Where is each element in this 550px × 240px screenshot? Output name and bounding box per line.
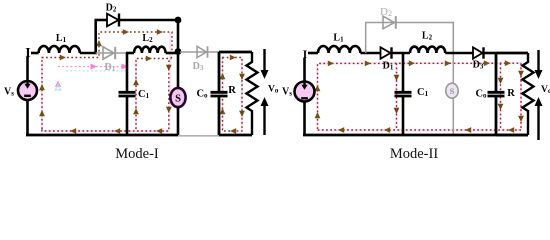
inductor L1 mode2 — [318, 46, 360, 53]
svg-text:Mode-I: Mode-I — [115, 146, 159, 162]
m2 arrow down c1 b — [394, 108, 400, 114]
wire S bottom lead — [177, 107, 180, 136]
pink arrow right 1 — [91, 64, 98, 70]
outloop arrow up a — [220, 73, 226, 79]
Vo arrow up — [261, 97, 269, 135]
wire D2 anode — [95, 19, 108, 22]
loop1 arrow left c — [70, 128, 76, 134]
pink ghost path horizontal — [58, 66, 128, 68]
current loop1 dashed Vs-L1-D2-S — [42, 32, 172, 131]
loop1 arrow right a — [60, 55, 66, 61]
wire Vs bottom lead mode2 — [303, 102, 306, 137]
mode2 dashed bottom return — [318, 129, 522, 131]
pink arrow up near Vs — [55, 81, 61, 88]
svg-text:Vo: Vo — [541, 85, 550, 95]
mode2 loop dashed main — [318, 63, 522, 129]
wire rail L1 to riser — [80, 52, 97, 55]
wire gray D2 branch mode2 — [366, 23, 454, 54]
pink halo under loop1 dashed — [42, 32, 171, 131]
m2 arrow right d — [445, 60, 451, 66]
m2 arrow left b — [465, 127, 471, 133]
wire node to L2 — [126, 52, 134, 55]
wire D1 to L2 mode2 — [392, 52, 411, 55]
wire bottom rail — [26, 134, 178, 137]
node dot top corner — [175, 17, 182, 24]
wire output box left lower mode2 — [495, 97, 498, 135]
mode2 dashed C1 branch down — [396, 63, 398, 130]
wire Vs bottom lead — [26, 100, 29, 136]
svg-text:S: S — [450, 86, 455, 96]
cyan artifact mark — [55, 85, 60, 91]
wire top rail left — [31, 52, 39, 55]
wire L2 to D3 mode2 — [445, 52, 473, 55]
switch S inactive mode2 — [446, 83, 458, 98]
source Vs — [18, 81, 37, 100]
svg-text:Vo: Vo — [268, 85, 279, 95]
loop1 arrow left b — [114, 128, 120, 134]
diode D2 inactive gray mode2 — [383, 16, 396, 29]
output loop dashed — [223, 58, 243, 132]
resistor R — [247, 52, 258, 135]
loop1 arrow down b — [166, 107, 172, 113]
mode2 dashed Co branch down — [500, 63, 502, 130]
m2 arrow left d — [338, 127, 344, 133]
m2 arrow right f — [505, 60, 511, 66]
pink halo under mode2 dashed — [318, 63, 522, 131]
wire output box left upper — [218, 52, 221, 91]
loop1 arrow right b — [123, 29, 129, 35]
wire D3 to box mode2 — [484, 52, 497, 55]
svg-text:R: R — [228, 85, 236, 96]
capacitor Co mode2 — [488, 92, 505, 96]
wire bottom rail mode2 — [303, 134, 528, 137]
wire output box top mode2 — [496, 52, 528, 55]
inductor L2 mode2 — [410, 47, 445, 53]
wire C1 top lead — [126, 53, 129, 91]
loop1 arrow left a — [156, 128, 162, 134]
outloop arrow right — [230, 55, 236, 61]
diode D2 — [107, 14, 119, 27]
m2 arrow right b — [365, 61, 371, 67]
cyan ghost path horizontal — [66, 70, 128, 72]
diode D1 inactive gray — [103, 47, 115, 59]
outloop arrow up b — [220, 108, 226, 114]
wire L2 to S node — [166, 52, 178, 55]
m2 arrow right c — [409, 60, 415, 66]
loop2 arrow up b — [133, 108, 139, 114]
resistor R mode2 — [523, 53, 534, 135]
wire gray bottom segment — [178, 135, 219, 137]
loop1 arrow up a — [39, 84, 45, 90]
capacitor C1 mode2 — [395, 92, 412, 96]
wire top corner down to rail — [177, 20, 180, 52]
m2 arrow right e — [484, 60, 490, 66]
wire C1 top lead mode2 — [402, 53, 405, 91]
diode D1 mode2 — [381, 47, 392, 58]
wire output box left lower — [218, 97, 221, 135]
wire Vs top lead mode2 — [303, 58, 306, 82]
outloop arrow down b — [239, 111, 245, 117]
loop1 arrow up b — [39, 110, 45, 116]
wire output box top — [219, 51, 252, 54]
wire gray D3 run — [180, 51, 219, 53]
wire output box bottom — [219, 134, 252, 137]
outloop arrow left — [230, 128, 236, 134]
inductor L2 — [134, 47, 166, 53]
m2 arrow down r b — [518, 116, 524, 122]
loop2 arrow right a — [146, 56, 152, 62]
inductor L1 — [39, 46, 80, 53]
Vo arrow up mode2 — [535, 97, 543, 140]
diode D3 inactive gray — [197, 46, 208, 57]
source Vs mode2 — [295, 82, 315, 102]
Vo arrow down — [261, 49, 269, 79]
m2 arrow up a — [315, 85, 321, 91]
loop1 arrow up c — [96, 40, 102, 46]
m2 arrow left a — [508, 127, 514, 133]
capacitor C1 — [119, 92, 136, 96]
m2 arrow left c — [384, 127, 390, 133]
pink halo output loop dashed — [223, 58, 243, 132]
loop1 arrow right c — [157, 29, 163, 35]
wire top rail left mode2 — [308, 52, 318, 55]
wire riser to D2 — [94, 20, 97, 54]
wire C1 bottom lead mode2 — [402, 97, 405, 136]
outloop arrow down a — [239, 74, 245, 80]
m2 arrow down co a — [498, 78, 504, 84]
wire D2 cathode to top corner — [119, 19, 178, 22]
m2 arrow down co b — [498, 104, 504, 110]
m2 arrow right a — [328, 61, 334, 67]
wire S top lead — [177, 52, 180, 89]
m2 arrow down r a — [518, 71, 524, 77]
Vo arrow down mode2 — [535, 50, 543, 79]
wire output box bottom mode2 — [496, 134, 528, 137]
m2 arrow up b — [315, 112, 321, 118]
wire gray D1 run — [96, 52, 127, 54]
loop2 arrow up a — [133, 79, 139, 85]
svg-text:R: R — [507, 88, 515, 99]
mode2 dashed R branch down — [520, 63, 522, 130]
m2 arrow down c1 a — [394, 75, 400, 81]
wire output box left upper mode2 — [495, 53, 498, 91]
wire gray S branch mode2 — [452, 53, 454, 136]
loop1 arrow down a — [166, 65, 172, 71]
capacitor Co — [211, 92, 228, 96]
wire L1 to D1 mode2 — [360, 52, 380, 55]
svg-text:Mode-II: Mode-II — [390, 146, 438, 162]
diode D3 mode2 — [473, 47, 484, 58]
node dot mid rail — [175, 48, 182, 55]
current loop2 dashed C1-L2-S — [136, 59, 172, 130]
wire Vs top lead — [26, 57, 29, 81]
svg-text:S: S — [175, 94, 181, 105]
switch S active — [170, 88, 185, 107]
pink arrow right 2 — [122, 64, 129, 70]
wire C1 bottom lead — [126, 97, 129, 136]
